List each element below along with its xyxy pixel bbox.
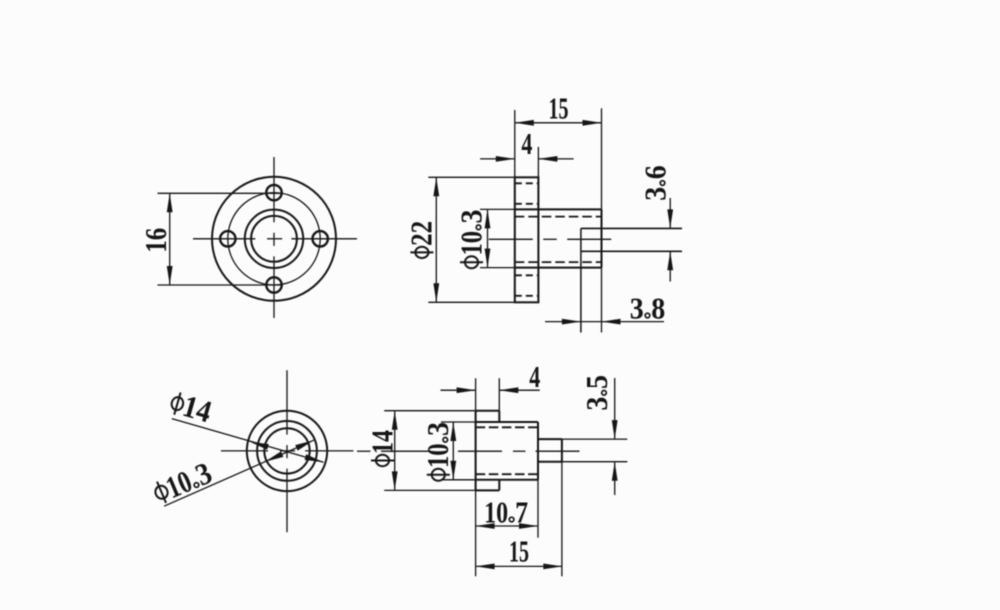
- bottom-right view: phi14 bottom extension: [384, 489, 475, 491]
- dimension phi14 side: text: [364, 430, 399, 466]
- svg-text:5: 5: [579, 375, 614, 389]
- dimension 3.6: lower tail: [669, 251, 671, 281]
- dimension 15: dimension line: [515, 122, 602, 124]
- top-left view: flange outer circle phi22: [212, 177, 336, 301]
- dimension phi10.3: text: [149, 455, 217, 510]
- svg-text:6: 6: [637, 165, 672, 179]
- svg-text:10: 10: [420, 444, 455, 469]
- dimension 16: text: [138, 228, 173, 253]
- bottom-right view: neck top edge: [538, 438, 562, 440]
- dimension 15: text: [549, 90, 569, 125]
- dimension 3.5: upper arrow: [612, 420, 618, 439]
- dimension 3.5: text: [579, 375, 614, 411]
- bottom-right view: body bottom edge: [476, 479, 538, 481]
- top-right view: bolt hole hidden line 4: [515, 295, 539, 297]
- top-right view: centerline: [489, 238, 533, 240]
- svg-text:7: 7: [515, 494, 528, 529]
- svg-text:15: 15: [509, 534, 529, 569]
- svg-text:3: 3: [579, 397, 614, 411]
- dimension 3.8: right arrow: [602, 319, 621, 325]
- bottom-right view: body bottom extension for phi10.3: [441, 479, 476, 481]
- svg-text:10: 10: [453, 231, 488, 256]
- top-left view: vertical centerline: [273, 157, 275, 222]
- dimension 4 bottom view: right arrow: [499, 387, 518, 393]
- dimension 15 bottom view: dimension line: [476, 565, 563, 567]
- top-right view: flange rectangle: [515, 177, 539, 302]
- top-left view: bolt hole top: [266, 185, 281, 200]
- bottom-right view: neck bottom edge: [538, 461, 562, 463]
- bottom-right view: hidden bore line top: [476, 426, 538, 428]
- svg-text:10: 10: [484, 494, 508, 529]
- svg-text:3: 3: [630, 290, 644, 325]
- top-right view: body top extension for phi10.3: [480, 208, 515, 210]
- top-right view: end hole top edge and 3.6 extension: [581, 227, 682, 229]
- bottom-right view: centerline: [357, 450, 371, 452]
- bottom-right view: body right edge: [537, 422, 539, 480]
- bottom-left view: vertical centerline: [286, 370, 288, 434]
- top-left view: bolt hole right: [313, 231, 328, 246]
- dimension 10.7: dimension line: [476, 525, 538, 527]
- bottom-left view: outer circle phi14: [247, 411, 327, 491]
- svg-text:22: 22: [404, 221, 439, 246]
- dimension 3.5: upper tail: [614, 378, 616, 439]
- dimension 16: top arrow: [167, 193, 173, 212]
- svg-text:3: 3: [453, 210, 488, 224]
- dimension 4: text: [521, 126, 532, 161]
- dimension 3.8: dimension line: [545, 321, 664, 323]
- dimension 16: top extension line: [158, 192, 284, 194]
- dimension 4: right tail: [538, 158, 573, 160]
- dimension 10.7: left arrow: [476, 523, 495, 529]
- dimension 4: left arrow: [496, 156, 515, 162]
- top-right view: bolt hole hidden line 2: [515, 203, 539, 205]
- svg-text:4: 4: [529, 359, 540, 394]
- top-left view: bolt circle phi16: [228, 193, 320, 285]
- dimension 4 bottom view: left arrow: [457, 387, 476, 393]
- svg-text:16: 16: [138, 228, 173, 253]
- dimension phi22: bottom arrow: [433, 283, 439, 302]
- top-right view: hidden bore line bottom: [515, 261, 602, 263]
- top-right view: phi22 top extension line: [428, 176, 515, 178]
- dimension phi10.3 side: top arrow: [450, 422, 456, 441]
- top-right view: body right edge: [601, 209, 603, 267]
- dimension 16: bottom extension line: [158, 284, 284, 286]
- bottom-right view: hidden bore line bottom: [476, 473, 538, 475]
- bottom-right view: collar right edge upper: [498, 411, 500, 422]
- dimension 10.7: right arrow: [519, 523, 538, 529]
- dimension phi22: top arrow: [433, 177, 439, 196]
- dimension 4: left tail: [480, 158, 515, 160]
- dimension phi10.3 side: text: [420, 422, 455, 481]
- top-right view: flange right extension vertical: [537, 147, 539, 177]
- dimension 3.5: lower arrow: [612, 462, 618, 481]
- top-right view: body bottom extension for phi10.3: [480, 267, 515, 269]
- dimension phi14 side: dimension line: [394, 411, 396, 491]
- dimension 4 bottom view: left tail: [441, 389, 476, 391]
- dimension phi14: text: [167, 385, 215, 430]
- dimension 3.6: lower arrow: [667, 251, 673, 270]
- dimension phi10.3: text: [453, 210, 488, 269]
- dimension phi10.3: dimension line: [487, 209, 489, 267]
- dimension 15 bottom view: text: [509, 534, 529, 569]
- dimension phi10.3 leader: near arrow: [265, 451, 284, 461]
- svg-text:3: 3: [637, 187, 672, 201]
- bottom-right view: collar right extension up: [498, 378, 500, 411]
- svg-text:14: 14: [364, 430, 399, 454]
- dimension phi10.3: bottom arrow: [485, 249, 491, 268]
- dimension 3.6: upper arrow: [667, 209, 673, 228]
- bottom-right view: body top extension for phi10.3: [441, 421, 476, 423]
- svg-text:4: 4: [521, 126, 532, 161]
- bottom-left view: middle circle phi10.3: [257, 421, 317, 481]
- dimension 3.8: text: [630, 290, 666, 325]
- bottom-right view: neck right extension down: [561, 462, 563, 577]
- dimension phi10.3: top arrow: [485, 209, 491, 228]
- bottom-left view: inner circle: [264, 428, 309, 473]
- top-right view: left extension line vertical: [514, 110, 516, 177]
- top-right view: hidden bore line top: [515, 216, 602, 218]
- dimension 4 bottom view: text: [529, 359, 540, 394]
- bottom-right view: phi14 top extension: [384, 410, 475, 412]
- dimension phi14 side: bottom arrow: [392, 471, 398, 490]
- dimension phi10.3 side: bottom arrow: [450, 461, 456, 480]
- dimension 3.5: lower tail: [614, 462, 616, 495]
- dimension phi14 side: top arrow: [392, 411, 398, 430]
- dimension phi10.3 leader line: [164, 440, 314, 506]
- top-left view: bore circle phi10.3: [245, 210, 303, 268]
- dimension 3.8: left arrow: [562, 319, 581, 325]
- top-left view: horizontal centerline: [193, 238, 255, 240]
- dimension 4 bottom view: right tail: [499, 389, 540, 391]
- dimension phi14 leader line: [172, 419, 324, 463]
- bottom-right view: collar top edge: [476, 410, 500, 412]
- bottom-right view: neck right edge: [561, 439, 563, 462]
- top-right view: body top edge: [515, 208, 602, 210]
- top-right view: phi22 bottom extension line: [428, 301, 515, 303]
- dimension 16: dimension line: [169, 193, 171, 285]
- top-right view: body bottom edge: [515, 267, 602, 269]
- dimension 10.7: text: [484, 494, 528, 529]
- dimension 16: bottom arrow: [167, 266, 173, 285]
- bottom-right view: neck bottom extension for 3.5: [562, 461, 627, 463]
- svg-text:8: 8: [651, 290, 665, 325]
- dimension 4: right arrow: [538, 156, 557, 162]
- dimension phi22: text: [404, 221, 439, 258]
- bottom-right view: body top edge: [476, 421, 538, 423]
- svg-text:3: 3: [420, 422, 455, 436]
- bottom-right view: collar bottom edge: [476, 489, 500, 491]
- dimension 15: left arrow: [515, 120, 534, 126]
- dimension phi10.3 side: dimension line: [452, 422, 454, 480]
- dimension 15 bottom view: right arrow: [543, 564, 562, 570]
- dimension phi14 leader: far arrow: [305, 454, 324, 462]
- bottom-right view: collar right edge lower: [498, 480, 500, 491]
- top-left view: bolt hole bottom: [266, 277, 281, 292]
- dimension phi10.3 leader: far arrow: [295, 440, 314, 450]
- bottom-right view: body right extension down: [537, 480, 539, 538]
- bottom-right view: left edge vertical with extensions: [475, 378, 477, 576]
- bottom-left view: horizontal centerline: [221, 450, 268, 452]
- top-left view: thread minor circle: [251, 216, 297, 262]
- dimension 3.6: upper tail: [669, 198, 671, 228]
- top-right view: bolt hole hidden line 1: [515, 182, 539, 184]
- dimension phi22: dimension line: [435, 177, 437, 302]
- dimension 15 bottom view: left arrow: [476, 564, 495, 570]
- dimension 3.6: text: [637, 165, 672, 201]
- top-right view: bolt hole hidden line 3: [515, 274, 539, 276]
- bottom-right view: collar left edge: [475, 411, 477, 491]
- dimension phi14 leader: near arrow: [250, 442, 269, 450]
- top-left view: bolt hole left: [220, 231, 235, 246]
- top-right view: right extension line vertical: [601, 108, 603, 209]
- dimension 15: right arrow: [583, 120, 602, 126]
- top-right view: end hole bottom edge and 3.6 extension: [581, 250, 682, 252]
- svg-text:15: 15: [549, 90, 569, 125]
- top-right view: end hole step face: [580, 228, 582, 332]
- bottom-right view: neck top extension for 3.5: [562, 438, 627, 440]
